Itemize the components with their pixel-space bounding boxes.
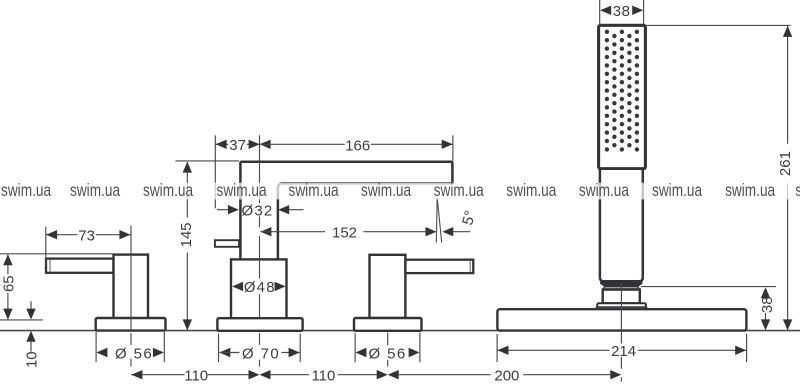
svg-text:swim.ua: swim.ua (725, 182, 775, 201)
dim 214: line+arrows (497, 349, 609, 351)
svg-text:swim.ua: swim.ua (579, 182, 629, 201)
dim D32: arrows (217, 209, 229, 211)
handle H1 escutcheon (96, 318, 166, 331)
svg-text:214: 214 (611, 343, 636, 360)
handle H2 right column (370, 255, 406, 318)
dim D56 right: arrows (355, 348, 366, 357)
svg-text:145: 145 (178, 222, 195, 247)
spout S1 escutcheon (217, 318, 302, 331)
dim 73: line+arrows (46, 234, 77, 236)
svg-text:166: 166 (345, 137, 370, 154)
svg-text:swim.ua: swim.ua (795, 182, 800, 201)
dim 5deg: text (459, 209, 479, 227)
dim D56 left: arrows (96, 348, 107, 357)
svg-text:152: 152 (332, 225, 357, 242)
dim 38 right: line + arrows (765, 296, 767, 298)
handle H2 escutcheon (354, 318, 422, 331)
svg-text:swim.ua: swim.ua (652, 182, 702, 201)
svg-text:swim.ua: swim.ua (289, 182, 339, 201)
svg-text:110: 110 (311, 368, 335, 385)
svg-text:38: 38 (613, 3, 631, 20)
dim 214: extension lines (496, 334, 498, 362)
svg-text:swim.ua: swim.ua (70, 182, 120, 201)
centerline H1 (130, 226, 132, 331)
dim 166: line+arrows (260, 140, 271, 149)
svg-text:10: 10 (24, 351, 41, 368)
shower holder flange (597, 303, 646, 307)
svg-text:65: 65 (1, 275, 18, 292)
dim 261: extension line (646, 24, 791, 26)
centerline S1 (259, 135, 261, 203)
shower holder nut (dark) (601, 282, 642, 286)
shower holder base strip (596, 307, 647, 309)
svg-text:Ø32: Ø32 (242, 202, 274, 219)
svg-text:swim.ua: swim.ua (143, 182, 193, 201)
handle H1 column (114, 255, 149, 319)
dim 37: line+arrows (216, 143, 229, 145)
dim D70: line+arrows (219, 348, 230, 357)
handle H1 lever end cap (49, 260, 51, 272)
handle H2 lever end cap (469, 261, 471, 273)
handle H1 left lever (46, 259, 114, 273)
svg-text:swim.ua: swim.ua (434, 182, 484, 201)
shower base plate (497, 309, 746, 330)
svg-text:swim.ua: swim.ua (361, 182, 411, 201)
deck line (0, 330, 800, 332)
svg-text:261: 261 (777, 151, 794, 176)
dim 5deg: angle lines (435, 198, 438, 243)
svg-text:110: 110 (184, 368, 208, 385)
svg-text:swim.ua: swim.ua (1, 182, 51, 201)
svg-text:swim.ua: swim.ua (217, 182, 267, 201)
dim chain 110/110/200: line (131, 374, 185, 376)
dim 261: line + arrows (787, 26, 789, 144)
dim 37/166: extension lines (214, 135, 216, 208)
centerline H2 (387, 333, 389, 346)
dim D70: extension lines (218, 334, 220, 362)
dim 65: extension lines (0, 253, 113, 255)
svg-text:Ø48: Ø48 (244, 279, 276, 296)
dim 152: line+arrows (260, 227, 271, 236)
hand shower handle (600, 169, 643, 282)
svg-text:200: 200 (494, 368, 519, 385)
dim 65: line+arrows (7, 254, 9, 274)
watermark translucent band (0, 183, 800, 200)
dim 38 top: line+arrows (600, 6, 611, 15)
spout S1 body D48 (231, 259, 287, 318)
svg-text:swim.ua: swim.ua (506, 182, 556, 201)
svg-text:Ø 56: Ø 56 (369, 345, 407, 362)
dim chain arrows (131, 370, 142, 379)
dim 73: extension line (45, 227, 47, 266)
dim 145: line+arrows (186, 162, 188, 217)
shower holder body (603, 290, 640, 304)
handle H2 lever (405, 260, 473, 273)
spout S1 outline (arm + riser pipe) (240, 162, 452, 260)
shower holder collar (603, 286, 640, 289)
spout S1 side tab (215, 240, 239, 247)
svg-text:Ø 56: Ø 56 (115, 345, 153, 362)
svg-text:73: 73 (78, 228, 95, 245)
watermark texts swim.ua (1, 182, 800, 201)
svg-text:Ø 70: Ø 70 (242, 345, 280, 362)
centerline shower (620, 284, 622, 344)
dim 10: arrows (30, 301, 32, 310)
svg-text:38: 38 (759, 296, 776, 313)
dim 38 right: extension line (641, 286, 776, 288)
dim D48: arrows (232, 282, 243, 291)
dim D56 left: extension lines (95, 332, 97, 362)
dim 38 top: extension lines (599, 0, 601, 25)
svg-text:37: 37 (229, 137, 246, 154)
dim D56 right: extension lines (354, 333, 356, 362)
hand shower head (599, 25, 646, 168)
dim 145: extension line (175, 160, 239, 162)
hand shower spray dots (605, 30, 639, 152)
